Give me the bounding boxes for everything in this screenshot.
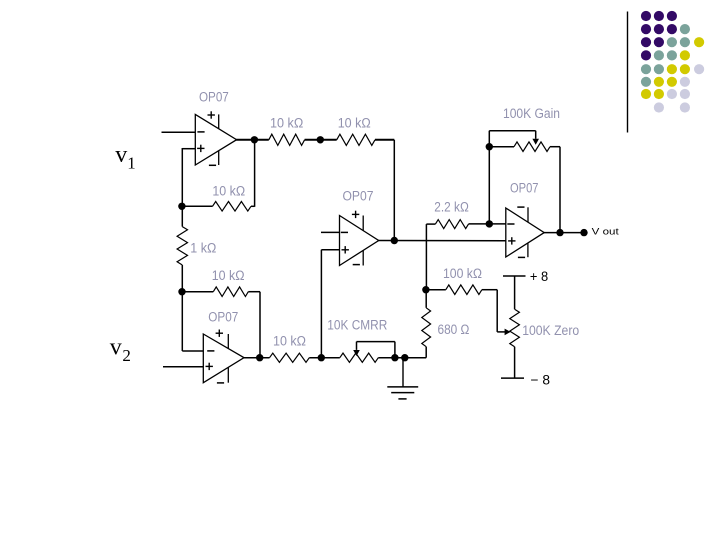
op-amp U1 OP07 (top left) xyxy=(195,111,236,165)
svg-text:V out: V out xyxy=(592,226,619,237)
node M junction dot (U2 output) xyxy=(391,237,398,244)
label R10 "100 k&#937;" xyxy=(443,266,482,281)
potentiometer P1 10K CMRR xyxy=(340,342,395,363)
label U4 "OP07" xyxy=(510,181,539,196)
node U1 output dot xyxy=(251,136,258,143)
svg-text:10 kΩ: 10 kΩ xyxy=(273,333,306,348)
wire P2 to output node xyxy=(559,147,561,233)
source label v1 xyxy=(115,142,136,172)
node U3 output dot xyxy=(256,354,263,361)
wire U4 output xyxy=(544,232,584,234)
svg-text:− 8: − 8 xyxy=(531,372,551,387)
label R3 "10 k&#937;" xyxy=(270,116,303,131)
resistor R5 1k (gain-set) xyxy=(177,206,187,291)
label R4 "10 k&#937;" xyxy=(338,116,371,131)
wire node E to P2 xyxy=(488,147,490,224)
potentiometer P2 100K Gain xyxy=(489,131,560,152)
op-amp U4 OP07 (output) xyxy=(506,207,544,257)
node output junction dot xyxy=(556,229,563,236)
svg-text:OP07: OP07 xyxy=(343,188,374,203)
wire node B to U3 inverting input xyxy=(182,292,203,351)
svg-text:2.2 kΩ: 2.2 kΩ xyxy=(434,199,469,214)
label R5 "1 k&#937;" xyxy=(190,241,216,256)
svg-text:v: v xyxy=(110,335,122,361)
op-amp U2 OP07 (middle) xyxy=(340,211,379,266)
svg-text:10 kΩ: 10 kΩ xyxy=(338,116,371,131)
svg-text:680 Ω: 680 Ω xyxy=(438,322,470,337)
svg-text:10K CMRR: 10K CMRR xyxy=(327,317,387,332)
node ground junction dot xyxy=(401,354,408,361)
ground xyxy=(387,358,418,399)
wire node C to U2 non-inverting input xyxy=(321,250,339,358)
svg-text:1 kΩ: 1 kΩ xyxy=(190,241,216,256)
node V out terminal dot xyxy=(580,229,587,236)
label U3 "OP07" xyxy=(208,310,238,325)
label R6 "10 k&#937;" xyxy=(212,268,245,283)
label "V out" xyxy=(592,226,619,237)
svg-text:OP07: OP07 xyxy=(510,181,539,196)
wire node D to R9 2.2k xyxy=(425,224,427,290)
svg-text:10 kΩ: 10 kΩ xyxy=(212,268,245,283)
svg-text:1: 1 xyxy=(127,153,136,172)
svg-text:10 kΩ: 10 kΩ xyxy=(212,183,245,198)
label P2 "100K Gain" xyxy=(503,106,560,121)
label P3 "100K Zero" xyxy=(522,323,579,338)
wire between R3 and R4 xyxy=(305,139,337,141)
svg-text:+ 8: + 8 xyxy=(530,269,548,284)
wire R6 to U3 output node xyxy=(259,292,261,358)
svg-text:100K Zero: 100K Zero xyxy=(522,323,579,338)
wire P1 to 680 ohm xyxy=(378,357,426,359)
wire U2 output to U4 non-inverting input xyxy=(378,240,506,242)
node B junction dot xyxy=(178,288,185,295)
resistor R8 680 ohm xyxy=(422,290,431,358)
label U1 "OP07" xyxy=(199,90,229,105)
node A junction dot xyxy=(178,203,185,210)
resistor R9 2.2k xyxy=(426,220,505,229)
op-amp U3 OP07 (bottom left) xyxy=(203,330,244,383)
resistor R6 10k (U3 feedback) xyxy=(182,287,260,297)
label P1 "10K CMRR" xyxy=(327,317,387,332)
label R9 "2.2 k&#937;" xyxy=(434,199,469,214)
power terminal -8 xyxy=(501,372,550,387)
node E junction dot (U4 inverting input) xyxy=(486,220,493,227)
potentiometer P3 100K Zero xyxy=(510,276,520,378)
source label v2 xyxy=(110,335,131,366)
wire stub U2 inverting input xyxy=(321,231,340,233)
node R3-R4 junction dot xyxy=(317,136,324,143)
wire R2 to U1 output node xyxy=(254,140,256,207)
svg-text:10 kΩ: 10 kΩ xyxy=(270,116,303,131)
wire R10 to P3 wiper xyxy=(497,290,510,336)
svg-text:OP07: OP07 xyxy=(208,310,238,325)
node P1 wiper junction dot xyxy=(391,354,398,361)
wire R7 to potentiometer P1 xyxy=(309,357,340,359)
resistor R4 10k (top second) xyxy=(337,134,375,145)
wire R4 to node M xyxy=(375,140,394,241)
label R7 "10 k&#937;" xyxy=(273,333,306,348)
svg-text:100K Gain: 100K Gain xyxy=(503,106,560,121)
svg-text:v: v xyxy=(115,142,127,168)
svg-text:2: 2 xyxy=(122,346,130,365)
resistor R7 10k (bottom rail) xyxy=(270,353,310,362)
resistor R3 10k (top first) xyxy=(269,134,305,145)
wire v1 to U1 inverting input xyxy=(162,131,196,133)
resistor R10 100k xyxy=(426,285,497,295)
node C junction dot xyxy=(318,354,325,361)
svg-text:OP07: OP07 xyxy=(199,90,229,105)
wire v2 to U3 non-inverting input xyxy=(163,366,203,368)
node D junction dot xyxy=(422,286,429,293)
resistor R2 10k (U1 feedback) xyxy=(182,202,255,212)
label R2 "10 k&#937;" xyxy=(212,183,245,198)
wire U3 output xyxy=(244,357,270,359)
power terminal +8 xyxy=(503,269,548,284)
label R8 "680 &#937;" xyxy=(438,322,470,337)
label U2 "OP07" xyxy=(343,188,374,203)
wire U1 non-inverting input to feedback node xyxy=(182,148,195,206)
node F junction dot xyxy=(486,143,493,150)
svg-text:100 kΩ: 100 kΩ xyxy=(443,266,482,281)
wire U1 output xyxy=(236,139,269,141)
